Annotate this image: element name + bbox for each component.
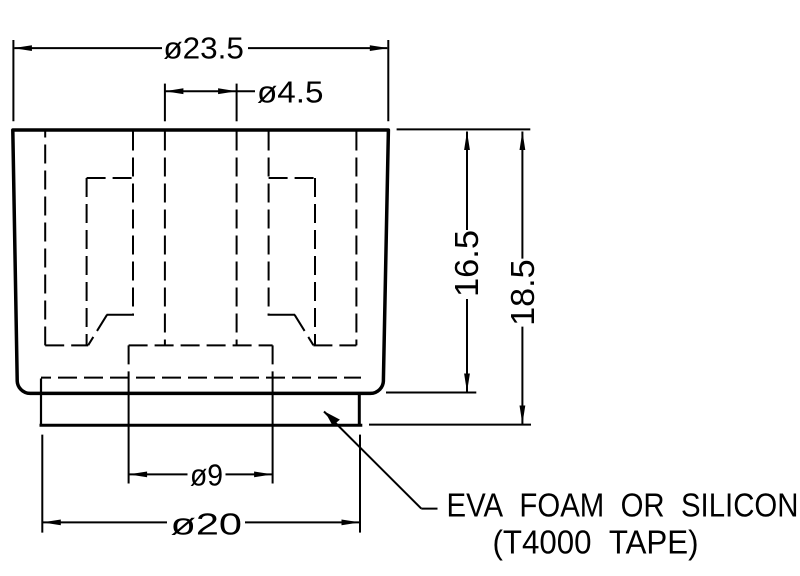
dimension d23.5 line right segment (248, 47, 387, 49)
dimension 16.5 line upper segment (466, 132, 468, 231)
hidden line right inner wall (268, 132, 270, 315)
dimension 18.5 line upper segment (521, 132, 523, 259)
svg-text:(T4000 TAPE): (T4000 TAPE) (493, 525, 699, 562)
hidden line right outer wall (355, 132, 357, 346)
hidden line bottom recess left (128, 345, 130, 380)
dimension d9 line right segment (226, 473, 273, 475)
dimension 16.5 line lower segment (466, 299, 468, 392)
svg-text:EVA FOAM OR SILICON: EVA FOAM OR SILICON (447, 487, 799, 524)
svg-text:ø20: ø20 (171, 507, 243, 542)
svg-text:ø9: ø9 (190, 458, 223, 493)
dimension d23.5 right extension line (387, 40, 389, 121)
hidden line right pocket top (269, 177, 315, 179)
dimension 18.5 line lower segment (521, 327, 523, 424)
leader arrow (325, 412, 340, 426)
svg-text:ø4.5: ø4.5 (257, 74, 324, 109)
dimension 16.5 bottom arrow (464, 374, 470, 393)
dimension 18.5 bottom arrow (520, 406, 526, 425)
hidden line right pocket wall (314, 178, 316, 345)
dimension d20 right extension line (359, 435, 361, 533)
svg-text:16.5: 16.5 (448, 230, 485, 297)
dimension d9 line left segment (129, 473, 188, 475)
dimension 18.5 top arrow (520, 132, 526, 151)
dimension d9 right extension line (272, 380, 274, 484)
hidden line left pocket top (87, 177, 133, 179)
dimension d9 right arrow (254, 472, 273, 478)
flange top hidden edge (41, 377, 361, 379)
hidden line left cavity floor (45, 344, 88, 346)
dimension d4.5 line (165, 90, 237, 92)
dimension d23.5 left extension line (12, 40, 14, 121)
flange right edge (358, 393, 361, 426)
dimension d20 left extension line (41, 435, 43, 533)
flange bottom edge (40, 424, 363, 427)
dimension d4.5 right extension line (236, 84, 238, 122)
hidden line left pocket step (107, 314, 134, 316)
dimension d20 line right segment (245, 521, 360, 523)
svg-text:ø23.5: ø23.5 (163, 31, 244, 66)
dimension d23.5 line left segment (14, 47, 162, 49)
hidden line left pocket wall (86, 178, 88, 345)
svg-text:18.5: 18.5 (504, 259, 541, 326)
dimension d4.5 left extension line (164, 84, 166, 122)
dimension d20 left arrow (42, 520, 61, 526)
dimension d20 right arrow (342, 520, 361, 526)
flange left edge (40, 379, 42, 427)
dimension 16.5 top arrow (464, 132, 470, 151)
hidden line center cavity floor (129, 344, 273, 346)
dimension d23.5 left arrow (13, 45, 32, 51)
dimension 16.5 bottom extension line (386, 392, 476, 394)
dimension d20 line left segment (42, 521, 167, 523)
hidden line left pocket chamfer (88, 315, 107, 345)
hidden line right pocket step (268, 314, 295, 316)
dimension 16.5-18.5 top extension line (397, 128, 531, 130)
hidden line hole right (236, 132, 238, 346)
dimension d4.5 left arrow (165, 88, 184, 94)
hidden line right cavity floor (313, 344, 356, 346)
dimension d4.5 stub to text (237, 90, 255, 92)
hidden line right pocket chamfer (295, 315, 314, 345)
hidden line bottom recess right (272, 345, 274, 380)
dimension d4.5 right arrow (218, 88, 237, 94)
dimension d9 left extension line (128, 380, 130, 484)
hidden line left outer wall (44, 132, 46, 346)
dimension d23.5 right arrow (370, 45, 389, 51)
leader line diagonal (324, 412, 421, 509)
hidden line hole left (164, 132, 166, 346)
dimension 18.5 bottom extension line (369, 424, 531, 426)
hidden line left inner wall (132, 132, 134, 315)
leader line horizontal stub (421, 508, 437, 510)
body outline (13, 130, 389, 393)
dimension d9 left arrow (129, 472, 148, 478)
